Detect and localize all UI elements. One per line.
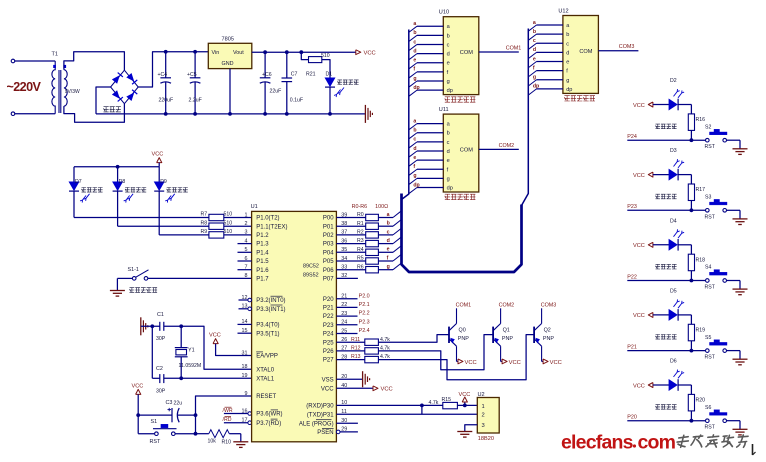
resistor R3	[336, 243, 365, 245]
svg-text:18: 18	[242, 364, 248, 370]
resistor R13	[336, 359, 364, 361]
svg-text:VCC: VCC	[633, 173, 645, 179]
svg-text:RST: RST	[705, 214, 716, 220]
svg-text:R13: R13	[351, 354, 361, 360]
svg-text:a: a	[533, 20, 536, 26]
wire pin3 to ground	[465, 425, 478, 432]
svg-text:PNP: PNP	[543, 336, 554, 342]
ground	[364, 105, 366, 123]
svg-text:COM: COM	[460, 147, 473, 153]
pin b U11	[409, 133, 417, 139]
svg-text:D5: D5	[670, 288, 677, 294]
svg-text:dp: dp	[413, 182, 419, 188]
svg-text:RST: RST	[705, 425, 716, 431]
svg-text:f: f	[387, 255, 389, 261]
ground	[457, 431, 472, 433]
svg-text:/WR: /WR	[223, 408, 233, 414]
svg-text:a: a	[413, 21, 416, 27]
temperature sensor U2 18B20	[477, 398, 499, 434]
svg-text:510: 510	[224, 220, 233, 226]
wire ground rail	[96, 113, 365, 115]
pin g U12	[528, 80, 536, 86]
svg-text:7805: 7805	[222, 37, 234, 43]
svg-text:P3.7(RD): P3.7(RD)	[256, 421, 281, 427]
watermark chinese	[676, 435, 689, 447]
svg-text:P2.3: P2.3	[359, 319, 370, 325]
watermark cursor mark	[752, 444, 754, 455]
transistor Q1 PNP	[492, 327, 494, 343]
svg-text:elecfans: elecfans	[561, 432, 634, 454]
pin f U11	[409, 169, 417, 175]
pin e U12	[528, 62, 536, 68]
svg-text:d: d	[413, 48, 416, 54]
svg-text:COM: COM	[460, 50, 473, 56]
svg-text:dp: dp	[533, 84, 539, 90]
svg-text:2.2uF: 2.2uF	[189, 98, 202, 104]
svg-text:1: 1	[245, 212, 248, 218]
pin dp U10	[409, 90, 417, 96]
power port VCC 18B20	[463, 404, 467, 408]
pin 32 stub	[336, 277, 358, 279]
node AC input terminal bottom	[11, 112, 15, 116]
wire 7805 GND leg	[229, 69, 231, 114]
svg-text:P02: P02	[323, 233, 334, 239]
pin a U11	[409, 124, 417, 130]
net label P23	[627, 209, 705, 211]
svg-text:16: 16	[242, 408, 248, 414]
svg-text:U11: U11	[439, 107, 449, 113]
wire	[727, 139, 741, 141]
pin dp U11	[409, 188, 417, 194]
net label /WR	[224, 413, 248, 415]
svg-text:89S52: 89S52	[303, 272, 319, 278]
capacitor C7	[286, 52, 288, 78]
wire R13 to Q2 base	[378, 335, 534, 380]
svg-text:U10: U10	[439, 10, 449, 16]
svg-text:D2: D2	[670, 78, 677, 84]
svg-text:RESET: RESET	[256, 394, 276, 400]
svg-text:e: e	[447, 61, 450, 67]
svg-text:VCC: VCC	[633, 103, 645, 109]
svg-text:D6: D6	[670, 359, 677, 365]
svg-text:P3.4(T0): P3.4(T0)	[256, 323, 279, 329]
svg-text:R8: R8	[201, 220, 208, 226]
svg-text:R18: R18	[696, 257, 706, 263]
svg-text:g: g	[533, 75, 536, 81]
pin f U10	[409, 72, 417, 78]
wire	[148, 277, 252, 279]
svg-text:PNP: PNP	[458, 336, 469, 342]
net label P2.1	[336, 306, 357, 308]
label seven-segment	[445, 194, 450, 199]
LED D1	[325, 78, 336, 88]
svg-text:RST: RST	[705, 355, 716, 361]
svg-text:c: c	[447, 140, 450, 146]
pin a U10	[409, 26, 417, 32]
resistor R6	[336, 269, 365, 271]
resistor R4	[336, 251, 365, 253]
svg-text:e: e	[566, 60, 569, 66]
pin e U11	[409, 160, 417, 166]
resistor R15	[422, 404, 443, 406]
resistor R17	[678, 174, 692, 176]
switch S1-1	[117, 277, 132, 279]
wire XTAL0 net	[179, 324, 183, 328]
svg-text:P00: P00	[323, 216, 334, 222]
svg-text:P1.4: P1.4	[256, 250, 269, 256]
LED D9	[158, 167, 160, 182]
svg-text:9V/3W: 9V/3W	[65, 89, 80, 95]
LED D3	[653, 174, 669, 176]
power port VCC Q2	[542, 360, 544, 362]
pin e U10	[409, 63, 417, 69]
svg-text:PNP: PNP	[502, 336, 513, 342]
pin c U10	[409, 44, 417, 50]
pin g U11	[409, 178, 417, 184]
svg-text:P07: P07	[323, 277, 334, 283]
pin 6 P1.5	[238, 260, 252, 262]
switch S2	[706, 138, 710, 142]
svg-text:P20: P20	[323, 297, 334, 303]
switch S1	[137, 415, 139, 434]
label speed indicator	[125, 188, 130, 193]
label speed indicator	[82, 188, 87, 193]
svg-text:R20: R20	[696, 398, 706, 404]
pin 12 P3.2(INT0)	[239, 299, 248, 301]
svg-text:P20: P20	[627, 415, 637, 421]
svg-text:b: b	[413, 128, 416, 134]
svg-text:R4: R4	[357, 247, 364, 253]
svg-text:D8: D8	[119, 179, 126, 185]
switch S4	[706, 279, 710, 283]
bridge rectifier D-bridge	[111, 70, 139, 104]
svg-text:U1: U1	[251, 204, 258, 210]
svg-text:P2.2: P2.2	[359, 311, 370, 317]
resistor R16	[678, 104, 692, 106]
wire secondary top to bridge	[64, 52, 125, 70]
svg-text:VCC: VCC	[381, 387, 393, 393]
svg-text:VCC: VCC	[152, 152, 164, 158]
wire	[224, 234, 252, 236]
svg-text:g: g	[447, 79, 450, 85]
resistor R21	[299, 50, 303, 54]
svg-text:RST: RST	[150, 439, 161, 445]
resistor R5	[336, 260, 365, 262]
svg-text:P06: P06	[323, 268, 334, 274]
svg-text:b: b	[447, 33, 450, 39]
wire R12 to Q1 base	[378, 335, 493, 370]
svg-text:S5: S5	[705, 335, 711, 341]
svg-text:VCC: VCC	[550, 360, 562, 366]
wire	[727, 420, 741, 422]
svg-text:R12: R12	[351, 346, 361, 352]
resistor R19	[678, 314, 692, 316]
svg-text:P03: P03	[323, 242, 334, 248]
svg-text:VCC: VCC	[459, 392, 471, 398]
svg-text:d: d	[447, 149, 450, 155]
wire segment c to bus	[378, 234, 393, 236]
svg-text:31: 31	[242, 350, 248, 356]
resistor R2	[336, 234, 365, 236]
svg-text:D1: D1	[326, 72, 333, 78]
svg-text:510: 510	[321, 53, 330, 59]
svg-text:GND: GND	[222, 61, 234, 67]
MCU U1 89C52	[252, 211, 337, 441]
svg-text:COM: COM	[579, 49, 592, 55]
LED D4	[653, 244, 669, 246]
bus left vertical thin	[402, 30, 409, 200]
svg-text:R21: R21	[306, 72, 316, 78]
svg-text:P1.7: P1.7	[256, 277, 269, 283]
svg-text:T1: T1	[52, 52, 59, 58]
svg-text:P1.1(T2EX): P1.1(T2EX)	[256, 224, 287, 230]
pin 20 VSS ground	[336, 378, 362, 380]
capacitor C6	[264, 52, 266, 78]
svg-text:d: d	[566, 50, 569, 56]
net label P2.0	[336, 298, 357, 300]
net label P21	[627, 350, 705, 352]
svg-text:R7: R7	[201, 212, 208, 218]
svg-text:b: b	[533, 29, 536, 35]
svg-text:P1.3: P1.3	[256, 242, 269, 248]
ground	[140, 317, 142, 335]
capacitor C1	[159, 322, 161, 331]
pin 5 P1.4	[238, 251, 252, 253]
svg-text:S4: S4	[705, 265, 711, 271]
svg-text:RST: RST	[705, 144, 716, 150]
svg-text:+C5: +C5	[187, 72, 197, 78]
wire	[15, 60, 55, 62]
svg-text:C7: C7	[291, 72, 298, 78]
svg-text:D9: D9	[160, 179, 167, 185]
power port VCC	[356, 50, 361, 55]
svg-text:b: b	[387, 221, 390, 227]
svg-text:e: e	[413, 155, 416, 161]
resistor R11	[336, 341, 364, 343]
svg-text:4: 4	[245, 238, 248, 244]
svg-text:P23: P23	[627, 204, 637, 210]
seven-segment display U11	[443, 114, 479, 192]
svg-text:17: 17	[242, 418, 248, 424]
seven-segment display U10	[443, 17, 479, 95]
svg-text:3: 3	[482, 423, 485, 429]
svg-text:dp: dp	[566, 87, 572, 93]
svg-text:com: com	[638, 432, 676, 454]
svg-text:15: 15	[242, 328, 248, 334]
svg-text:P24: P24	[627, 134, 637, 140]
svg-text:6: 6	[245, 256, 248, 262]
svg-text:P05: P05	[323, 259, 334, 265]
transistor Q2 PNP	[533, 327, 535, 343]
LED D6	[653, 384, 669, 386]
ground	[116, 278, 118, 290]
svg-text:P3.2(INT0): P3.2(INT0)	[256, 298, 285, 304]
svg-text:VCC: VCC	[209, 333, 221, 339]
svg-text:14: 14	[242, 319, 248, 325]
svg-text:P3.6(WR): P3.6(WR)	[256, 412, 282, 418]
svg-text:c: c	[387, 229, 390, 235]
svg-text:P25: P25	[323, 340, 334, 346]
svg-text:PSEN: PSEN	[317, 430, 333, 436]
label key indicator	[656, 194, 661, 199]
svg-text:Q1: Q1	[503, 328, 510, 334]
wire	[727, 350, 741, 352]
svg-text:P22: P22	[627, 274, 637, 280]
svg-text:C3: C3	[166, 400, 173, 406]
svg-text:U2: U2	[478, 392, 485, 398]
svg-text:0.1uF: 0.1uF	[290, 98, 303, 104]
svg-text:R16: R16	[696, 117, 706, 123]
svg-text:d: d	[533, 47, 536, 53]
svg-text:C2: C2	[156, 366, 163, 372]
svg-text:U12: U12	[558, 8, 568, 14]
wire bridge + output	[138, 52, 208, 87]
label seven-segment	[564, 96, 569, 101]
label key indicator	[656, 124, 661, 129]
svg-text:R11: R11	[351, 337, 360, 343]
wire	[224, 217, 252, 219]
label start/stop	[130, 288, 135, 293]
svg-text:P04: P04	[323, 250, 334, 256]
svg-text:510: 510	[224, 229, 233, 235]
svg-text:R0-R6: R0-R6	[352, 204, 368, 210]
resistor R9	[209, 232, 224, 238]
power port VCC Q0	[457, 360, 459, 362]
net label P2.3	[336, 324, 357, 326]
svg-text:(RXD)P30: (RXD)P30	[306, 404, 334, 410]
svg-text:8: 8	[245, 273, 248, 279]
svg-text:c: c	[413, 39, 416, 45]
svg-text:19: 19	[242, 373, 248, 379]
svg-text:D7: D7	[75, 179, 82, 185]
svg-text:18B20: 18B20	[478, 436, 494, 442]
svg-text:13: 13	[242, 304, 248, 310]
svg-text:89C52: 89C52	[303, 263, 319, 269]
svg-text:f: f	[533, 65, 535, 71]
svg-text:dp: dp	[447, 186, 453, 192]
svg-text:VCC: VCC	[364, 51, 376, 57]
net label P22	[627, 280, 705, 282]
svg-text:f: f	[413, 164, 415, 170]
wire segment a to bus	[378, 217, 393, 219]
svg-text:P21: P21	[323, 306, 334, 312]
pin 4 P1.3	[238, 243, 252, 245]
label key indicator	[656, 405, 661, 410]
label power indicator	[338, 80, 343, 85]
svg-text:S2: S2	[705, 124, 711, 130]
resistor R20	[678, 384, 692, 386]
svg-text:D4: D4	[670, 218, 677, 224]
pin 15 P3.5(T1)	[238, 332, 252, 334]
svg-text:Q2: Q2	[544, 328, 551, 334]
svg-text:P1.0(T2): P1.0(T2)	[256, 216, 279, 222]
svg-text:g: g	[413, 76, 416, 82]
node AC input terminal top	[11, 59, 15, 63]
svg-text:e: e	[413, 58, 416, 64]
svg-text:e: e	[533, 56, 536, 62]
svg-text:4.7k: 4.7k	[429, 400, 439, 406]
label seven-segment	[445, 97, 450, 102]
svg-text:C1: C1	[157, 312, 164, 318]
svg-text:e: e	[447, 158, 450, 164]
svg-text:P01: P01	[323, 224, 334, 230]
svg-text:g: g	[387, 264, 390, 270]
svg-text:R6: R6	[357, 264, 364, 270]
crystal Y1	[180, 326, 182, 347]
label key indicator	[656, 264, 661, 269]
svg-text:+C6: +C6	[262, 72, 272, 78]
svg-text:/RD: /RD	[223, 417, 232, 423]
svg-text:S6: S6	[705, 405, 711, 411]
wire LED rail	[74, 166, 159, 168]
wire secondary bottom to bridge	[64, 104, 125, 123]
svg-text:VCC: VCC	[633, 383, 645, 389]
resistor R8	[209, 223, 224, 229]
svg-text:30P: 30P	[156, 336, 166, 342]
svg-text:(TXD)P31: (TXD)P31	[307, 412, 334, 418]
pin 14 P3.4(T0)	[238, 323, 252, 325]
svg-text:Vout: Vout	[233, 50, 244, 56]
svg-text:b: b	[566, 32, 569, 38]
svg-text:Y1: Y1	[188, 348, 195, 354]
svg-text:22u: 22u	[174, 401, 183, 407]
transistor Q0 PNP	[448, 327, 450, 343]
resistor R18	[678, 244, 692, 246]
svg-text:1: 1	[482, 404, 485, 410]
svg-text:510: 510	[224, 212, 233, 218]
svg-text:9: 9	[245, 391, 248, 397]
wire	[141, 325, 160, 327]
svg-text:d: d	[413, 146, 416, 152]
svg-text:7: 7	[245, 265, 248, 271]
svg-text:S1-1: S1-1	[128, 267, 139, 273]
svg-text:5: 5	[245, 247, 248, 253]
svg-text:P2.1: P2.1	[359, 302, 370, 308]
svg-text:P23: P23	[323, 323, 334, 329]
wire segment e to bus	[378, 251, 393, 253]
svg-text:R10: R10	[222, 439, 232, 445]
pin b U10	[409, 35, 417, 41]
pin c U12	[528, 43, 536, 49]
ground	[733, 148, 748, 150]
wire D8 to R8	[118, 225, 209, 227]
svg-text:dp: dp	[447, 88, 453, 94]
pin d U12	[528, 52, 536, 58]
pin dp U12	[528, 89, 536, 95]
svg-text:ALE (PROG): ALE (PROG)	[299, 421, 334, 427]
svg-text:g: g	[413, 173, 416, 179]
pin c U11	[409, 142, 417, 148]
wire P31 net	[336, 413, 477, 415]
svg-text:VCC: VCC	[132, 384, 144, 390]
ground	[240, 434, 242, 442]
svg-text:2: 2	[482, 413, 485, 419]
svg-text:VSS: VSS	[322, 377, 334, 383]
pin d U10	[409, 54, 417, 60]
svg-text:~220V: ~220V	[7, 80, 42, 94]
wire bridge - to ground rail	[96, 87, 111, 114]
svg-text:D3: D3	[670, 148, 677, 154]
svg-text:COM3: COM3	[541, 303, 557, 309]
svg-text:VCC: VCC	[633, 243, 645, 249]
svg-text:dp: dp	[413, 85, 419, 91]
svg-text:P1.6: P1.6	[256, 268, 269, 274]
svg-text:Q0: Q0	[459, 328, 466, 334]
power port VCC Q1	[501, 360, 503, 362]
wire R11 to Q0 base	[378, 335, 449, 343]
svg-text:XTAL0: XTAL0	[256, 367, 275, 373]
svg-text:P27: P27	[323, 358, 334, 364]
